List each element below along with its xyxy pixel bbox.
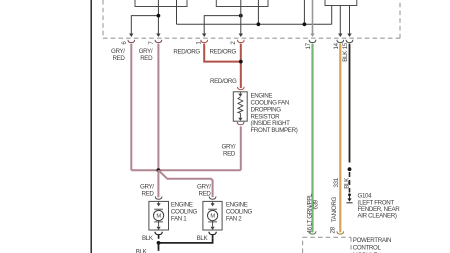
svg-text:RED: RED: [223, 151, 236, 158]
svg-text:2: 2: [230, 41, 237, 45]
wire to pin 15: [347, 6, 351, 38]
junction dot F: [157, 168, 161, 172]
junction dot A: [157, 14, 161, 18]
svg-text:RED/ORG: RED/ORG: [210, 78, 237, 85]
svg-text:46 LT GRN/PPL: 46 LT GRN/PPL: [306, 193, 313, 233]
motor M2 label: [226, 202, 253, 223]
resistor label: [251, 93, 298, 135]
wire GRY/RED from pin 7: [157, 44, 159, 171]
svg-text:28: 28: [330, 226, 337, 233]
svg-text:POWERTRAIN: POWERTRAIN: [353, 237, 391, 244]
ground label G104: [358, 193, 401, 220]
wire to pin 14: [338, 6, 342, 38]
svg-text:GRY/: GRY/: [139, 48, 153, 55]
svg-text:14: 14: [333, 42, 340, 49]
junction dot D: [303, 22, 307, 26]
component box (top right, cut off): [325, 0, 357, 6]
wire BLK from fan 2: [159, 239, 213, 243]
svg-text:BLK: BLK: [142, 235, 154, 242]
junction dot B: [239, 14, 243, 18]
svg-text:639: 639: [313, 199, 320, 209]
svg-text:ENGINE: ENGINE: [171, 202, 193, 209]
motor M2: engine cooling fan 2: [203, 196, 222, 230]
svg-text:GRY/: GRY/: [111, 48, 125, 55]
svg-text:M: M: [210, 214, 215, 220]
wire to pin 7: [156, 0, 160, 37]
junction dot I: [348, 193, 351, 196]
svg-text:BLK: BLK: [343, 177, 350, 189]
page frame line (left border of diagram page): [90, 0, 92, 253]
wire from box1 down to bus: [176, 0, 178, 24]
component box (top left, cut off): [135, 0, 187, 7]
PCM pin 28 terminal: [337, 231, 344, 234]
connector pin 14 terminal: [337, 40, 344, 43]
svg-text:6: 6: [121, 41, 128, 45]
svg-text:COOLING: COOLING: [171, 209, 198, 216]
svg-text:CONTROL: CONTROL: [353, 245, 382, 252]
wire from top to bus: [303, 0, 305, 24]
wire GRY/RED to fan 1: [157, 170, 159, 197]
horizontal bus wire: [177, 23, 332, 25]
gray wire to pin 17: [310, 0, 314, 37]
wire GRY/RED to fan 2: [158, 170, 212, 197]
svg-text:BLK: BLK: [136, 249, 148, 253]
svg-text:FAN 2: FAN 2: [226, 216, 242, 223]
svg-text:GRY/: GRY/: [222, 144, 236, 151]
svg-text:TAN/ORG: TAN/ORG: [331, 196, 338, 222]
svg-text:BLK: BLK: [197, 235, 209, 242]
wire LT GRN/PPL (pin 17 to PCM pin 46): [311, 44, 313, 233]
wire to pin 6: [129, 16, 158, 37]
svg-text:17: 17: [305, 42, 312, 49]
motor M1: engine cooling fan 1: [149, 196, 169, 230]
svg-text:ENGINE: ENGINE: [226, 202, 248, 209]
wire GRY/RED from pin 6: [130, 44, 132, 171]
connector pin 2 terminal: [237, 40, 244, 43]
connector pin 7 terminal: [155, 40, 162, 43]
wire RED/ORG from pin 1: [204, 44, 241, 62]
junction dot E: [239, 60, 243, 64]
svg-text:RED/ORG: RED/ORG: [210, 48, 237, 55]
svg-text:7: 7: [148, 41, 155, 45]
junction dot H: [348, 167, 352, 171]
junction dot C: [257, 22, 261, 26]
svg-text:COOLING: COOLING: [226, 209, 253, 216]
connector pin 15 terminal: [346, 40, 353, 43]
fan 1 lower terminal: [154, 232, 162, 239]
svg-text:RED/ORG: RED/ORG: [173, 48, 200, 55]
wire from box3 to bus: [331, 6, 333, 25]
wire GRY/RED below resistor: [240, 126, 242, 170]
dashed box: powertrain control module: [303, 237, 351, 253]
wire to pin 2: [239, 0, 243, 37]
dashed BLK ground distribution wire: [349, 172, 351, 193]
wire BLK (pin 15 to ground): [349, 44, 351, 163]
PCM label: [353, 237, 391, 253]
svg-text:RED: RED: [113, 55, 126, 62]
connector pin 1 terminal: [201, 40, 208, 43]
fan 2 lower terminal: [208, 232, 216, 239]
svg-text:AIR CLEANER): AIR CLEANER): [358, 213, 397, 220]
connector pin 6 terminal: [128, 40, 135, 43]
svg-text:RED: RED: [140, 55, 153, 62]
motor M1 label: [171, 202, 198, 223]
wire TAN/ORG (pin 14 to PCM pin 28): [339, 44, 341, 233]
ground G104: [346, 196, 352, 203]
wire to pin 1: [202, 16, 241, 37]
svg-text:FAN 1: FAN 1: [171, 216, 187, 223]
svg-text:M: M: [156, 214, 161, 220]
svg-text:RED: RED: [142, 191, 155, 198]
svg-text:FRONT BUMPER): FRONT BUMPER): [251, 127, 298, 134]
wire from box2 to bus: [257, 0, 259, 24]
wire RED/ORG from pin 2: [240, 44, 242, 88]
svg-text:15: 15: [342, 42, 349, 49]
component box (top middle, cut off): [216, 0, 268, 7]
dashed boundary: underhood fuse/relay box (top, cut off): [103, 0, 400, 38]
svg-text:BLK: BLK: [342, 50, 349, 62]
wire: horizontal GRY/RED bus to fans: [131, 169, 241, 171]
connector pin 17 terminal: [309, 40, 316, 43]
resistor R: engine cooling fan dropping resistor: [233, 87, 247, 125]
wire BLK down from junction: [158, 243, 160, 251]
svg-text:331: 331: [333, 177, 340, 187]
PCM pin 46 terminal: [309, 231, 316, 234]
junction dot G: [157, 241, 161, 245]
